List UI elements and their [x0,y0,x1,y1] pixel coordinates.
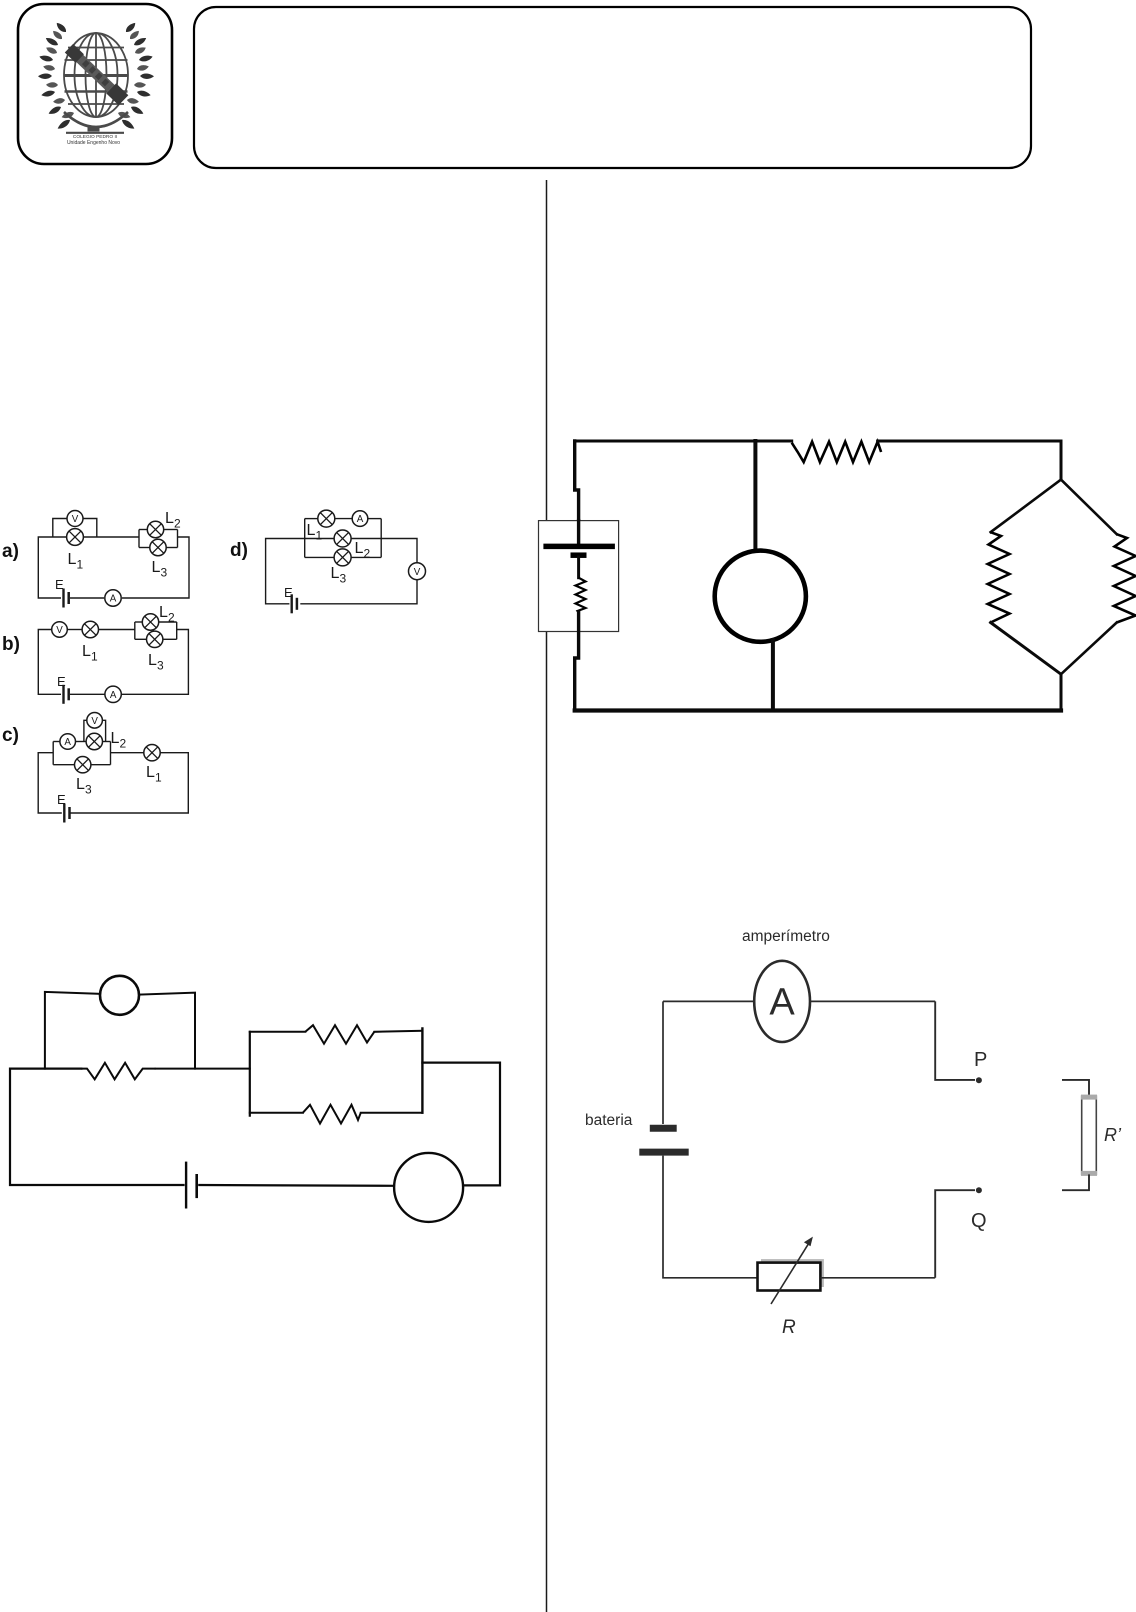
circuit a: wire right loop [122,537,189,598]
top-right circuit: resistor right zigzag [1114,534,1136,622]
circuit b: label L3 [148,652,164,673]
lower-right circuit: resistor R-prime body [1081,1095,1097,1176]
lower-right circuit: wire to terminal P [935,1001,975,1080]
lower-right circuit: variable resistor R box shadow [761,1259,824,1287]
top-right circuit: diamond upper-left diagonal [991,480,1061,533]
circuit a: wire parallel left junction [138,530,140,548]
lower-right circuit: terminal P dot [976,1077,982,1083]
lower-right circuit: ammeter A (ellipse) [754,961,810,1042]
svg-text:c): c) [2,725,19,746]
lower-right circuit: variable resistor arrow [771,1237,813,1304]
circuit b: wire bottom branch right [163,638,177,640]
svg-text:amperímetro: amperímetro [742,928,830,945]
circuit c: voltmeter V across L2 [87,713,103,729]
top-right circuit: resistor R top zigzag [792,442,881,462]
circuit d: wire parallel left junction [304,519,306,558]
top-right circuit: galvanometer G (circle) [715,551,806,642]
circuit a: label L2 [165,510,181,531]
circuit a: lamp L2 [147,521,163,537]
logo scepter band [65,44,129,105]
lower-left circuit: wire bottom branch right [361,1112,423,1114]
svg-text:a): a) [2,541,19,562]
svg-text:A: A [769,982,795,1024]
circuit c: ammeter A [60,734,76,750]
circuit c: lamp L3 [75,757,91,773]
circuit b: lamp L1 [82,621,98,637]
lower-left circuit: wire parallel right junction [421,1029,423,1113]
school logo globe [64,33,128,117]
svg-text:L: L [165,510,174,527]
circuit c: wire voltmeter right [102,720,105,741]
svg-text:1: 1 [91,650,98,664]
top-right circuit: top wire right to diamond [878,441,1061,480]
circuit b: wire battery to ammeter [70,693,105,695]
circuit d: label L1 [307,522,323,543]
svg-text:A: A [110,690,117,701]
circuit d: ammeter A [352,511,368,527]
circuit a: wire voltmeter right [84,519,97,538]
top-right circuit: bottom wire [575,708,1061,712]
logo laurel right branch [117,21,154,131]
circuit c: wire parallel right junction [110,742,112,765]
top-right circuit: battery box [539,521,619,632]
circuit a: lamp L3 [150,539,166,555]
lower-left circuit: wire R1 to parallel box [156,1068,250,1070]
circuit b: wire V to L1 [67,629,82,631]
circuit a: label L3 [152,559,168,580]
circuit b: wire right loop [122,630,189,695]
circuit d: label L2 [355,540,371,561]
svg-text:V: V [91,716,98,727]
lower-left circuit: wire right side down [422,1063,500,1186]
svg-text:A: A [64,737,71,748]
circuit d: wire left loop [266,539,305,604]
circuit c: label L1 [146,764,162,785]
lower-right circuit: R-prime top lead [1062,1080,1089,1097]
lower-left circuit: resistor R2 zigzag (top branch) [305,1025,374,1044]
circuit c: wire bottom branch right [91,764,111,766]
circuit c: wire right loop [70,753,189,813]
circuit c: battery E [64,804,69,823]
top-right circuit: middle branch lower wire [771,640,775,711]
logo frame box [18,4,172,164]
circuit b: wire parallel left junction [134,622,136,639]
circuit a: wire left loop [38,537,139,598]
top-right circuit: battery short plate [571,552,587,558]
lower-right circuit: left wire lower and bottom [663,1156,758,1278]
svg-text:2: 2 [120,737,127,751]
top-right circuit: wire into battery [577,521,580,544]
circuit c: wire bottom branch left [53,764,74,766]
circuit c: wire voltmeter left [84,720,87,741]
lower-left circuit: wire meter loop left [45,992,100,1069]
svg-text:2: 2 [174,517,181,531]
svg-text:3: 3 [157,659,164,673]
svg-text:V: V [56,625,63,636]
svg-text:1: 1 [155,771,162,785]
lower-right circuit: top wire left [663,1000,754,1002]
svg-text:R’: R’ [1104,1125,1122,1145]
svg-text:L: L [331,565,340,582]
svg-text:L: L [82,643,91,660]
top-right circuit: diamond lower-right diagonal [1061,623,1117,675]
lower-left circuit: wire left and bottom [10,1069,184,1185]
circuit a: wire top branch left [139,529,147,531]
svg-text:3: 3 [340,572,347,586]
circuit b: wire L1 to parallel [99,629,135,631]
circuit b: label L2 [159,604,175,625]
circuit b: voltmeter V [52,622,68,638]
column divider line [546,180,548,1612]
top-right circuit: resistor left zigzag [988,532,1010,622]
top-right circuit: diamond upper-right diagonal [1061,480,1117,535]
circuit a: wire parallel right junction [177,530,179,548]
svg-text:Q: Q [971,1210,987,1232]
svg-text:V: V [414,567,421,578]
circuit a: battery E [64,589,69,608]
circuit c: wire box to L1 [111,752,144,754]
lower-right circuit: wire to terminal Q [935,1190,975,1278]
svg-text:Unidade Engenho Novo: Unidade Engenho Novo [67,140,120,146]
circuit d: wire bottom branch left [305,556,334,558]
circuit d: wire mid branch right [351,538,381,540]
svg-text:V: V [72,514,79,525]
svg-text:bateria: bateria [585,1112,633,1129]
svg-text:2: 2 [168,611,175,625]
lower-left circuit: resistor R3 zigzag (bottom branch) [303,1105,361,1124]
svg-text:L: L [146,764,155,781]
circuit a: ammeter A [105,590,121,606]
circuit c: wire L2 to junction [103,741,111,743]
top-right circuit: battery long plate [543,544,615,550]
svg-text:1: 1 [77,558,84,572]
circuit c: wire A to L2 [76,741,87,743]
circuit d: wire A to junction [368,518,381,520]
circuit d: wire top branch lead [305,518,318,520]
svg-text:L: L [152,559,161,576]
lower-right circuit: top wire right [810,1000,935,1002]
svg-text:L: L [76,776,85,793]
circuit b: wire parallel right junction [176,622,178,639]
svg-text:A: A [357,514,364,525]
circuit b: wire top branch left [135,621,143,623]
lower-left circuit: motor M (circle) [394,1153,463,1222]
circuit a: wire voltmeter left [53,519,67,538]
lower-left circuit: battery [186,1162,197,1209]
svg-text:2: 2 [364,547,371,561]
circuit c: lamp L1 [144,745,160,761]
circuit b: wire left loop [38,630,61,695]
lower-left circuit: wire bottom branch lead [250,1112,303,1114]
circuit a: label L1 [68,551,84,572]
circuit a: wire battery to ammeter [70,597,104,599]
svg-text:3: 3 [85,783,92,797]
top-right circuit: left wire lower [575,612,579,709]
svg-text:L: L [68,551,77,568]
circuit b: wire bottom branch left [135,638,147,640]
lower-right circuit: battery short plate [650,1125,677,1132]
svg-text:L: L [111,730,120,747]
lower-left circuit: wire parallel left junction [249,1032,251,1116]
circuit c: wire left loop [38,753,62,813]
circuit b: ammeter A [105,686,121,702]
circuit b: wire top branch right [159,621,177,623]
svg-text:1: 1 [316,529,323,543]
svg-text:P: P [974,1049,987,1071]
circuit d: voltmeter V [409,563,426,580]
svg-text:L: L [159,604,168,621]
circuit b: lamp L2 [142,614,158,630]
top-right circuit: top wire left [575,440,792,443]
lower-left circuit: wire top branch lead [250,1031,305,1033]
circuit a: wire bottom branch left [139,547,150,549]
lower-right circuit: R-prime bottom lead [1062,1174,1089,1190]
svg-text:d): d) [230,540,248,561]
circuit c: wire parallel left junction [52,742,54,765]
circuit d: wire bottom right [300,580,417,604]
top-right circuit: wire battery to coil [577,557,580,578]
circuit a: wire bottom branch right [166,547,177,549]
circuit d: wire L1 to A [335,518,352,520]
circuit c: label L3 [76,776,92,797]
circuit b: lamp L3 [147,631,163,647]
circuit b: label L1 [82,643,98,664]
header box [194,7,1031,168]
circuit c: wire top branch lead [53,741,60,743]
lower-left circuit: resistor R1 zigzag [81,1063,155,1080]
circuit a: voltmeter V across L1 [67,511,83,527]
svg-text:R: R [782,1317,796,1338]
top-right circuit: middle branch upper wire [753,441,757,552]
circuit d: wire bottom branch right [351,556,381,558]
logo base ribbon [64,112,128,127]
svg-text:b): b) [2,634,20,655]
circuit c: lamp L2 [86,733,102,749]
circuit d: label L3 [331,565,347,586]
svg-text:L: L [307,522,316,539]
logo laurel left branch [38,21,75,131]
circuit d: lamp L2 [334,530,351,547]
svg-text:3: 3 [161,566,168,580]
circuit d: lamp L3 [334,549,351,566]
top-right circuit: left wire upper [575,441,579,521]
lower-left circuit: wire battery to motor [199,1184,394,1187]
circuit d: wire right top [381,539,417,563]
lower-right circuit: battery long plate [639,1149,688,1156]
lower-right circuit: variable resistor R box [758,1263,821,1291]
svg-text:L: L [355,540,364,557]
circuit a: wire top branch right [164,529,178,531]
circuit b: battery E [64,685,69,704]
top-right circuit: internal resistance coil [576,578,586,613]
lower-right circuit: terminal Q dot [976,1187,982,1193]
circuit d: lamp L1 [318,510,335,527]
circuit d: battery E [292,594,297,613]
lower-left circuit: meter G (circle) [100,976,139,1015]
circuit d: wire mid branch left [305,538,334,540]
circuit c: label L2 [111,730,127,751]
svg-text:A: A [110,594,117,605]
lower-right circuit: bottom wire right [820,1277,935,1279]
lower-left circuit: wire top branch right [374,1031,422,1032]
lower-right circuit: left wire upper [662,1001,664,1124]
circuit d: wire parallel right junction [380,519,382,558]
lower-left circuit: wire meter loop right [139,993,195,1069]
top-right circuit: diamond lower-left diagonal [991,623,1061,711]
svg-text:L: L [148,652,157,669]
circuit a: lamp L1 [67,529,84,546]
